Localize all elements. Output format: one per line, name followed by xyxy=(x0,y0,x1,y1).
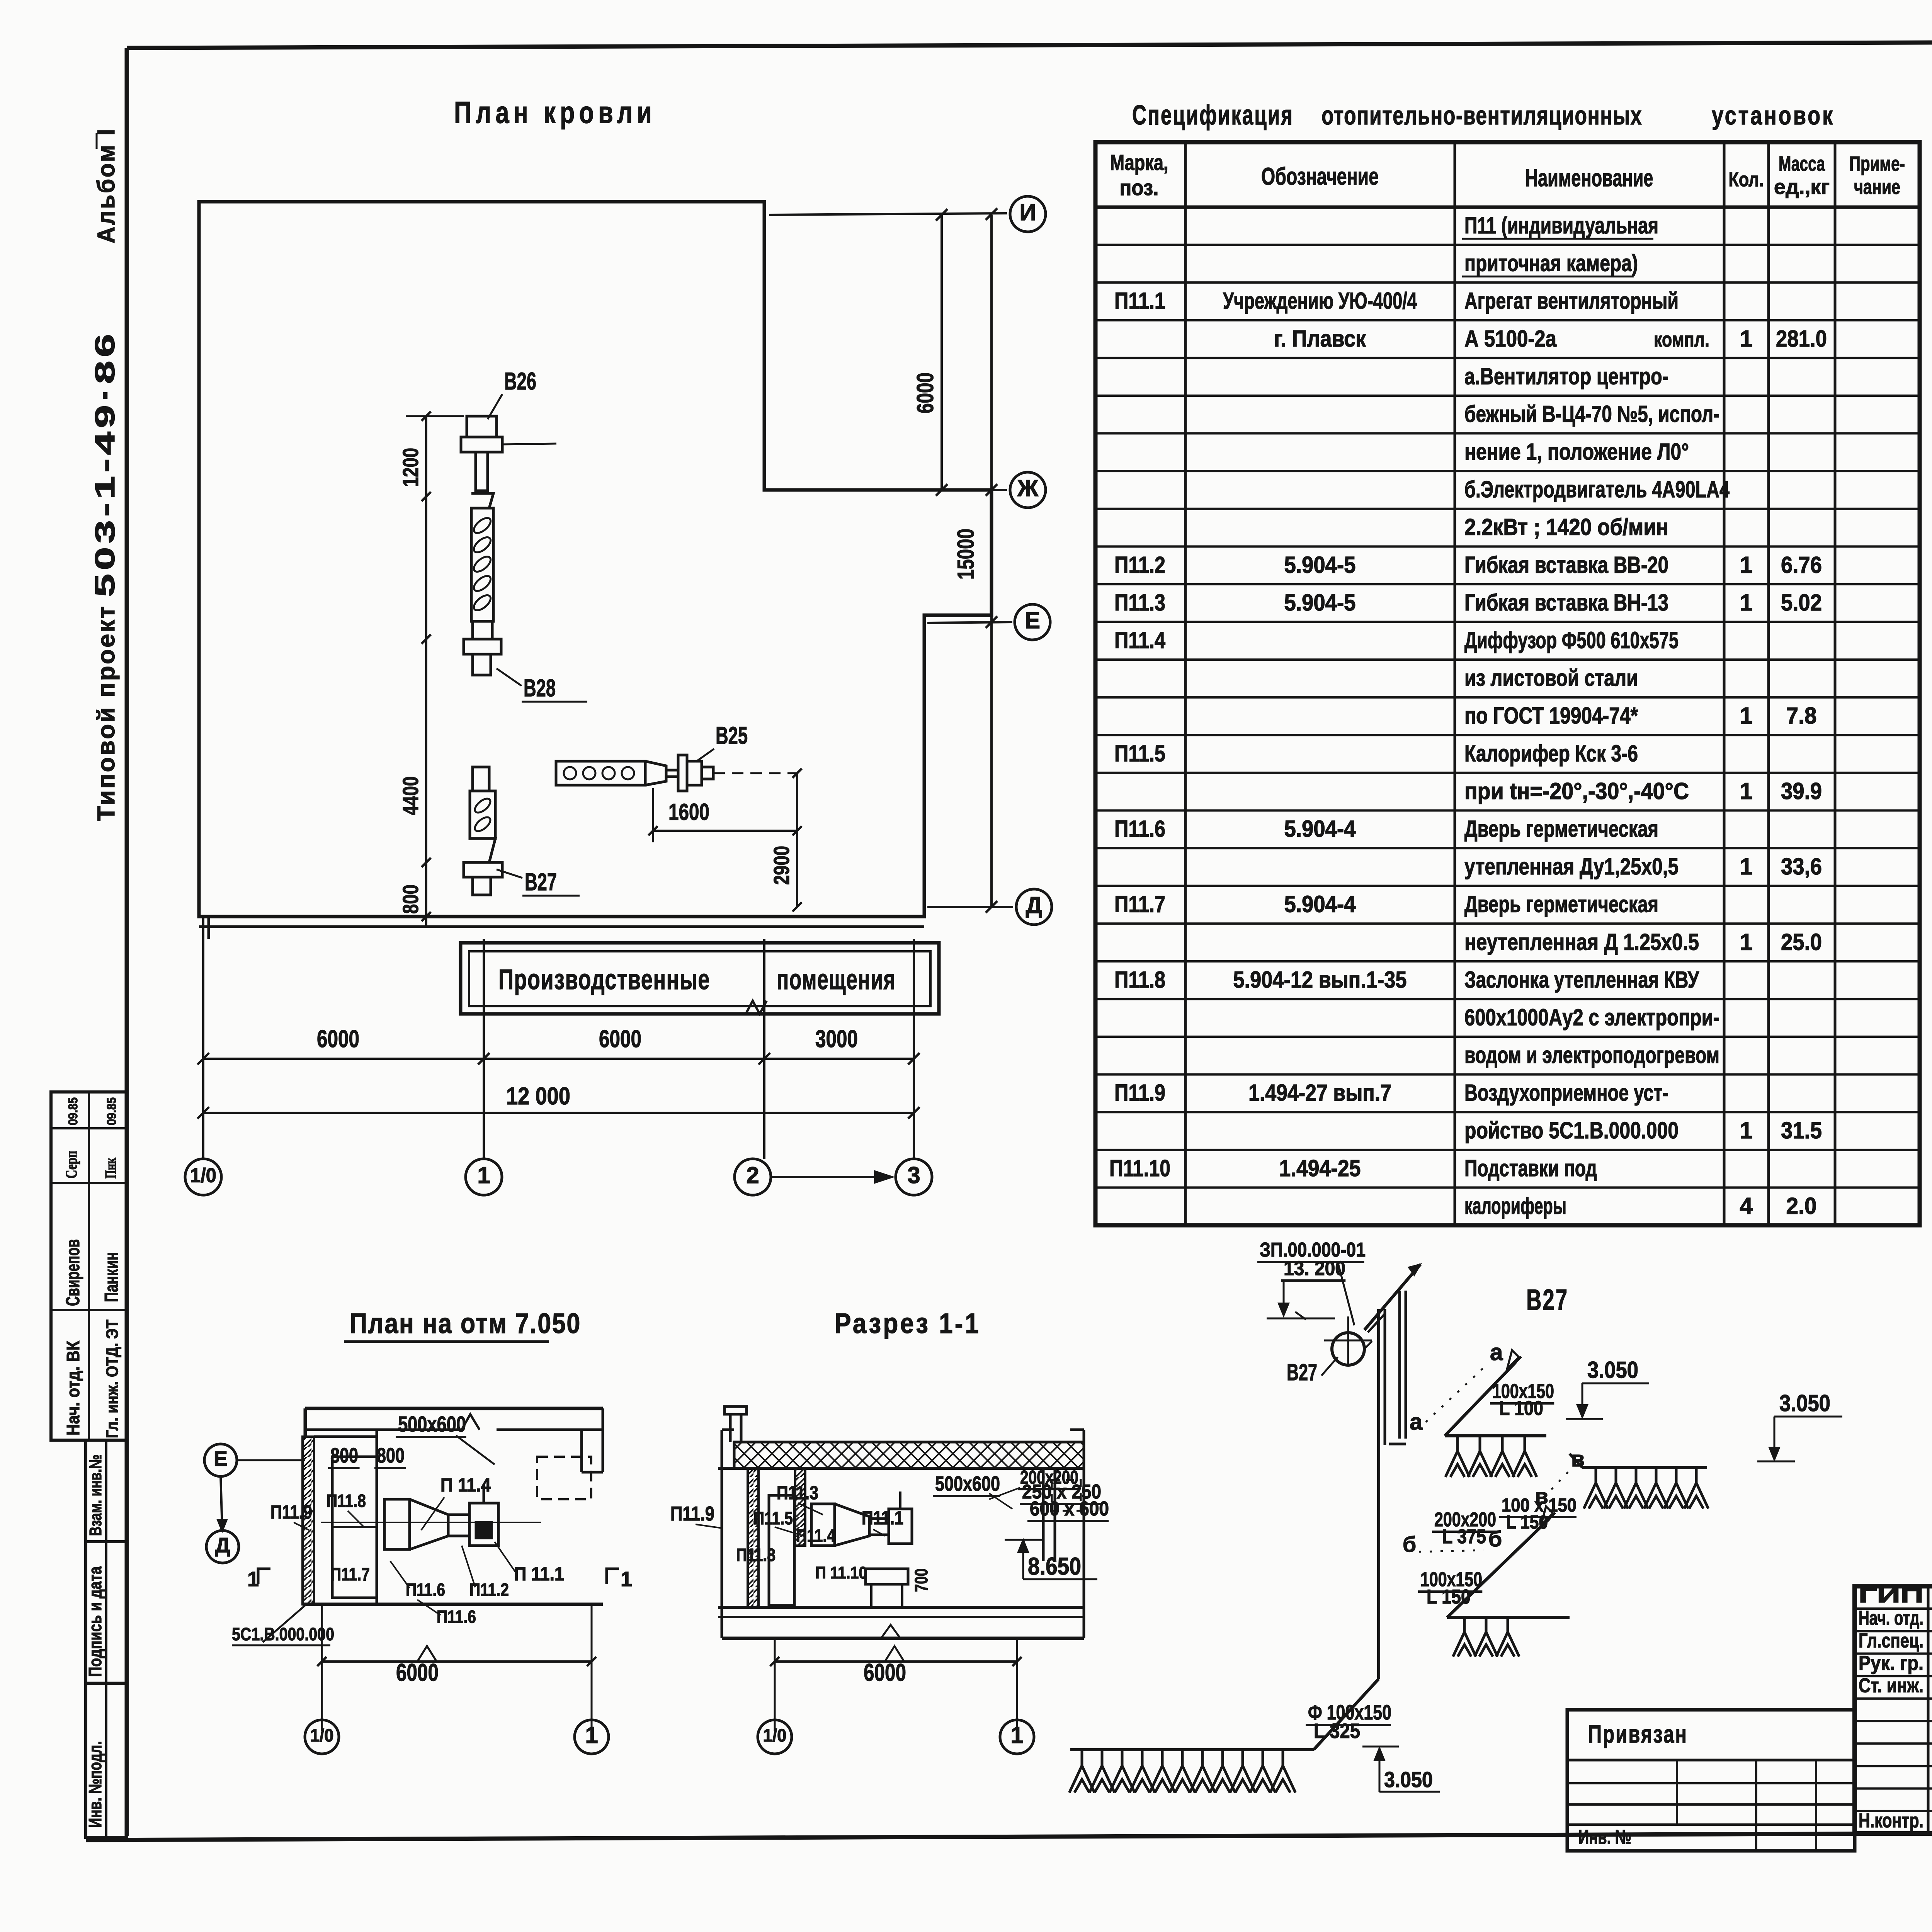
svg-text:Гибкая вставка ВН-13: Гибкая вставка ВН-13 xyxy=(1464,590,1668,616)
svg-text:П11.5: П11.5 xyxy=(1114,740,1165,766)
title block left columns xyxy=(1927,1586,1930,1833)
axis И xyxy=(769,213,1007,215)
svg-text:1: 1 xyxy=(1010,1722,1023,1748)
svg-text:Воздухоприемное уст-: Воздухоприемное уст- xyxy=(1464,1080,1668,1106)
axis circle 2 xyxy=(735,1159,771,1195)
margin strip: Инв. № подл. xyxy=(86,1683,127,1837)
svg-text:приточная камера): приточная камера) xyxy=(1464,250,1638,276)
svg-text:П11.6: П11.6 xyxy=(1114,816,1165,842)
svg-text:1/0: 1/0 xyxy=(763,1725,787,1745)
svg-text:Пнк: Пнк xyxy=(102,1158,119,1179)
axis circle 3 xyxy=(896,1159,932,1195)
svg-text:Разрез 1-1: Разрез 1-1 xyxy=(835,1308,981,1339)
centerline dashed xyxy=(713,772,797,774)
section equipment xyxy=(769,1495,794,1605)
plan 7.050 walls xyxy=(305,1407,603,1410)
svg-text:П11.4: П11.4 xyxy=(1114,628,1166,653)
svg-text:бежный В-Ц4-70 №5, испол-: бежный В-Ц4-70 №5, испол- xyxy=(1464,401,1719,427)
svg-text:33,6: 33,6 xyxy=(1781,854,1822,879)
svg-text:Подпись и дата: Подпись и дата xyxy=(85,1566,105,1677)
svg-text:13. 200: 13. 200 xyxy=(1284,1257,1345,1280)
axis Ж xyxy=(769,489,1007,491)
bottom dim chain xyxy=(202,917,204,1159)
svg-text:В25: В25 xyxy=(716,722,748,749)
svg-text:г. Плавск: г. Плавск xyxy=(1274,326,1366,352)
svg-text:2: 2 xyxy=(746,1162,759,1188)
svg-text:Гл. инж. ОТД. ЭТ: Гл. инж. ОТД. ЭТ xyxy=(103,1320,122,1438)
svg-text:5.904-12 вып.1-35: 5.904-12 вып.1-35 xyxy=(1233,967,1407,993)
svg-text:при tн=-20°,-30°,-40°С: при tн=-20°,-30°,-40°С xyxy=(1464,778,1689,804)
svg-text:4: 4 xyxy=(1740,1193,1753,1219)
margin strip: Подпись и дата xyxy=(86,1542,127,1683)
svg-text:39.9: 39.9 xyxy=(1781,778,1822,804)
svg-text:а.Вентилятор центро-: а.Вентилятор центро- xyxy=(1464,363,1668,389)
svg-text:1: 1 xyxy=(1740,929,1752,955)
svg-text:1: 1 xyxy=(1740,326,1752,352)
svg-text:Гибкая вставка ВВ-20: Гибкая вставка ВВ-20 xyxy=(1464,552,1668,578)
svg-text:П11.2: П11.2 xyxy=(469,1580,509,1600)
svg-text:П11.1: П11.1 xyxy=(862,1508,903,1529)
svg-text:3.050: 3.050 xyxy=(1779,1390,1830,1416)
section bottom dim xyxy=(774,1638,776,1731)
svg-text:700: 700 xyxy=(911,1568,931,1592)
svg-text:503-1-49·86: 503-1-49·86 xyxy=(90,330,121,597)
svg-text:Гл.спец.: Гл.спец. xyxy=(1859,1629,1923,1652)
svg-text:1: 1 xyxy=(1740,552,1752,578)
svg-text:L 150: L 150 xyxy=(1506,1512,1548,1533)
svg-text:П11.9: П11.9 xyxy=(670,1503,714,1525)
svg-text:Д: Д xyxy=(215,1534,230,1557)
svg-text:А 5100-2а: А 5100-2а xyxy=(1464,326,1557,352)
parapet double line xyxy=(199,925,924,928)
svg-text:П11.10: П11.10 xyxy=(1109,1155,1170,1181)
svg-text:Д: Д xyxy=(1026,892,1043,918)
svg-text:Калорифер Кск 3-6: Калорифер Кск 3-6 xyxy=(1464,740,1638,766)
svg-text:600 х 600: 600 х 600 xyxy=(1030,1498,1109,1520)
svg-text:5С1.В.000.000: 5С1.В.000.000 xyxy=(232,1624,334,1644)
svg-text:1: 1 xyxy=(1740,590,1752,616)
svg-text:П11.7: П11.7 xyxy=(1114,891,1165,917)
svg-text:1200: 1200 xyxy=(398,448,423,487)
svg-text:600х1000Ау2 с электропри-: 600х1000Ау2 с электропри- xyxy=(1464,1004,1719,1030)
axis Д xyxy=(927,906,1013,908)
svg-text:по ГОСТ 19904-74*: по ГОСТ 19904-74* xyxy=(1464,703,1638,729)
axis circle 1/0 xyxy=(185,1159,221,1195)
svg-text:1/0: 1/0 xyxy=(310,1725,334,1745)
svg-text:Нач. отд. ВК: Нач. отд. ВК xyxy=(63,1340,83,1435)
svg-text:4400: 4400 xyxy=(398,776,423,815)
svg-text:В27: В27 xyxy=(1526,1284,1568,1316)
svg-text:6000: 6000 xyxy=(599,1026,641,1053)
svg-text:1: 1 xyxy=(477,1162,490,1188)
svg-text:Дверь герметическая: Дверь герметическая xyxy=(1464,816,1658,842)
svg-text:П 11.10: П 11.10 xyxy=(815,1563,867,1582)
svg-text:1/0: 1/0 xyxy=(190,1165,216,1187)
svg-text:2900: 2900 xyxy=(769,846,794,885)
svg-text:1: 1 xyxy=(1740,778,1752,804)
svg-text:3.050: 3.050 xyxy=(1384,1767,1433,1792)
svg-text:1.494-25: 1.494-25 xyxy=(1279,1155,1361,1181)
svg-text:установок: установок xyxy=(1712,101,1835,130)
svg-text:Рук. гр.: Рук. гр. xyxy=(1859,1652,1923,1675)
vent unit B26 xyxy=(467,416,497,437)
svg-text:калориферы: калориферы xyxy=(1464,1193,1566,1219)
svg-text:из листовой стали: из листовой стали xyxy=(1464,665,1638,691)
svg-text:Заслонка утепленная КВУ: Заслонка утепленная КВУ xyxy=(1464,967,1699,993)
svg-text:ройство 5С1.В.000.000: ройство 5С1.В.000.000 xyxy=(1464,1117,1679,1143)
svg-text:1: 1 xyxy=(585,1722,598,1748)
svg-text:Взам. инв.№: Взам. инв.№ xyxy=(86,1454,105,1536)
svg-text:Серп: Серп xyxy=(62,1151,80,1179)
margin strip: Взам. инв. № xyxy=(86,1440,127,1542)
svg-text:6000: 6000 xyxy=(864,1659,906,1686)
dim 4400 xyxy=(425,497,427,862)
margin stamp table xyxy=(51,1092,127,1440)
svg-text:500х600: 500х600 xyxy=(935,1472,1000,1495)
svg-text:25.0: 25.0 xyxy=(1781,929,1822,955)
svg-text:8.650: 8.650 xyxy=(1028,1553,1081,1580)
svg-text:5.904-4: 5.904-4 xyxy=(1284,816,1356,842)
svg-text:б.Электродвигатель 4А90LА4: б.Электродвигатель 4А90LА4 xyxy=(1464,476,1730,502)
svg-text:помещения: помещения xyxy=(777,964,896,995)
svg-text:L 325: L 325 xyxy=(1314,1719,1360,1743)
svg-text:Дверь герметическая: Дверь герметическая xyxy=(1464,891,1658,917)
svg-text:5.904-4: 5.904-4 xyxy=(1284,891,1356,917)
svg-text:И: И xyxy=(1019,199,1036,225)
svg-text:П11.3: П11.3 xyxy=(1114,590,1165,616)
svg-text:L 150: L 150 xyxy=(1427,1586,1471,1608)
svg-text:Подставки под: Подставки под xyxy=(1464,1155,1597,1181)
section roof xyxy=(724,1406,747,1414)
svg-text:500х600: 500х600 xyxy=(398,1412,466,1437)
svg-text:П11.8: П11.8 xyxy=(736,1545,776,1565)
svg-text:1600: 1600 xyxy=(668,799,709,825)
svg-text:5.02: 5.02 xyxy=(1781,590,1822,616)
svg-text:1: 1 xyxy=(621,1568,632,1591)
axis Е xyxy=(927,622,1012,623)
svg-text:Наименование: Наименование xyxy=(1526,165,1653,192)
vent unit B27 (plan) xyxy=(473,767,489,791)
svg-text:П11.8: П11.8 xyxy=(1114,967,1165,993)
svg-text:П11.1: П11.1 xyxy=(1114,288,1165,314)
arrow 2->3 xyxy=(772,1176,893,1178)
svg-text:б: б xyxy=(1403,1532,1416,1557)
svg-text:П11.3: П11.3 xyxy=(777,1483,818,1503)
dim 800 xyxy=(425,862,427,927)
section marks 1-1 xyxy=(258,1569,270,1584)
svg-text:утепленная Ду1,25х0,5: утепленная Ду1,25х0,5 xyxy=(1464,854,1679,879)
svg-text:ГИП: ГИП xyxy=(1859,1585,1923,1607)
svg-text:800: 800 xyxy=(377,1444,405,1467)
axis circle 1 xyxy=(466,1159,502,1195)
B27 bottom run xyxy=(1314,1679,1379,1750)
svg-text:800: 800 xyxy=(398,884,423,914)
svg-text:В28: В28 xyxy=(524,675,556,702)
privyazan table xyxy=(1567,1710,1855,1851)
svg-text:1: 1 xyxy=(1740,1117,1752,1143)
svg-text:нение 1, положение Л0°: нение 1, положение Л0° xyxy=(1464,439,1689,465)
section left wall xyxy=(748,1468,759,1607)
svg-text:Инв. №подл.: Инв. №подл. xyxy=(85,1741,105,1828)
svg-text:Нач. отд.: Нач. отд. xyxy=(1859,1607,1923,1629)
svg-text:2.0: 2.0 xyxy=(1786,1193,1817,1219)
svg-text:Ж: Ж xyxy=(1017,475,1039,501)
svg-text:П11.5: П11.5 xyxy=(753,1508,793,1528)
dim 15000 xyxy=(990,215,993,907)
svg-text:а: а xyxy=(1410,1409,1423,1435)
svg-text:12 000: 12 000 xyxy=(506,1083,570,1110)
svg-text:П 11.1: П 11.1 xyxy=(514,1564,564,1585)
svg-text:09.85: 09.85 xyxy=(66,1097,80,1125)
svg-text:П11.2: П11.2 xyxy=(1114,552,1165,578)
svg-text:компл.: компл. xyxy=(1654,328,1709,351)
svg-text:800: 800 xyxy=(330,1444,358,1467)
svg-text:П11.6: П11.6 xyxy=(406,1580,445,1600)
svg-text:09.85: 09.85 xyxy=(104,1097,119,1125)
svg-text:П 11.4: П 11.4 xyxy=(440,1475,491,1496)
svg-text:П11.8: П11.8 xyxy=(327,1491,366,1511)
svg-text:Масса: Масса xyxy=(1779,152,1825,175)
svg-text:Марка,: Марка, xyxy=(1110,150,1168,175)
svg-text:поз.: поз. xyxy=(1120,175,1159,200)
svg-text:Ст. инж.: Ст. инж. xyxy=(1859,1675,1923,1697)
svg-text:Инв. №: Инв. № xyxy=(1578,1826,1631,1849)
svg-text:Учреждению УЮ-400/4: Учреждению УЮ-400/4 xyxy=(1223,288,1417,314)
svg-text:П11 (индивидуальная: П11 (индивидуальная xyxy=(1464,213,1658,238)
plan 7.050 equipment xyxy=(332,1457,377,1598)
B27 riser xyxy=(1377,1309,1380,1679)
svg-text:3000: 3000 xyxy=(815,1026,858,1053)
svg-text:3: 3 xyxy=(907,1162,920,1188)
svg-text:План на отм 7.050: План на отм 7.050 xyxy=(350,1308,581,1339)
svg-text:7.8: 7.8 xyxy=(1786,703,1817,729)
svg-text:6000: 6000 xyxy=(912,372,938,413)
svg-text:6.76: 6.76 xyxy=(1781,552,1822,578)
svg-text:П11.7: П11.7 xyxy=(330,1564,370,1584)
dim 2900 xyxy=(796,773,798,907)
svg-text:Обозначение: Обозначение xyxy=(1261,163,1379,190)
svg-text:Свирепов: Свирепов xyxy=(63,1239,83,1306)
svg-text:чание: чание xyxy=(1854,175,1900,199)
frame border xyxy=(127,40,1932,48)
svg-text:П11.6: П11.6 xyxy=(437,1607,476,1627)
svg-text:неутепленная Д 1.25х0.5: неутепленная Д 1.25х0.5 xyxy=(1464,929,1699,955)
svg-text:1: 1 xyxy=(247,1568,259,1591)
B27 fan xyxy=(1332,1333,1364,1365)
dim 1200 xyxy=(425,416,427,497)
svg-text:В27: В27 xyxy=(1287,1359,1317,1385)
svg-text:15000: 15000 xyxy=(953,529,979,580)
svg-text:Производственные: Производственные xyxy=(498,964,710,995)
svg-text:281.0: 281.0 xyxy=(1776,326,1827,352)
svg-text:Привязан: Привязан xyxy=(1588,1720,1688,1748)
svg-text:6000: 6000 xyxy=(396,1659,439,1686)
svg-text:1: 1 xyxy=(1740,854,1752,879)
svg-text:5.904-5: 5.904-5 xyxy=(1284,590,1356,616)
B27 top diagonal xyxy=(1364,1264,1420,1330)
title block xyxy=(1855,1586,1932,1833)
building outline xyxy=(199,202,992,917)
svg-text:отопительно-вентиляционных: отопительно-вентиляционных xyxy=(1321,101,1642,130)
svg-text:П11.9: П11.9 xyxy=(270,1502,312,1523)
svg-text:водом и электроподогревом: водом и электроподогревом xyxy=(1464,1042,1719,1068)
svg-text:В26: В26 xyxy=(504,368,536,395)
svg-text:Е: Е xyxy=(214,1447,228,1470)
svg-text:2.2кВт ; 1420 об/мин: 2.2кВт ; 1420 об/мин xyxy=(1464,514,1668,540)
spec table grid xyxy=(1095,142,1920,1225)
svg-text:П11.9: П11.9 xyxy=(1114,1080,1165,1106)
svg-text:Е: Е xyxy=(1025,607,1040,633)
svg-text:5.904-5: 5.904-5 xyxy=(1284,552,1356,578)
svg-text:В27: В27 xyxy=(525,869,557,896)
svg-text:Типовой проект: Типовой проект xyxy=(93,605,120,821)
svg-text:L 100: L 100 xyxy=(1499,1397,1543,1420)
plan 7.050 bottom dim xyxy=(321,1604,323,1731)
plan 7.050 axes E and Д xyxy=(204,1444,237,1476)
svg-text:ед.,кг: ед.,кг xyxy=(1774,175,1830,199)
svg-text:П11.4: П11.4 xyxy=(796,1526,835,1546)
svg-text:1.494-27 вып.7: 1.494-27 вып.7 xyxy=(1248,1080,1391,1106)
section right duct xyxy=(1042,1468,1045,1561)
svg-text:Панкин: Панкин xyxy=(101,1252,122,1302)
vent unit B25 (plan) xyxy=(556,761,645,785)
svg-text:Кол.: Кол. xyxy=(1729,168,1764,191)
svg-text:1: 1 xyxy=(1740,703,1752,729)
svg-text:Диффузор Ф500 610х575: Диффузор Ф500 610х575 xyxy=(1464,628,1679,653)
svg-text:План кровли: План кровли xyxy=(454,95,656,129)
box Производственные помещения xyxy=(461,943,939,1014)
section floor xyxy=(718,1606,1084,1609)
svg-text:Н.контр.: Н.контр. xyxy=(1859,1810,1923,1832)
svg-text:3.050: 3.050 xyxy=(1587,1357,1638,1383)
svg-text:6000: 6000 xyxy=(317,1026,359,1053)
dim 6000 (И-Ж) xyxy=(940,215,943,490)
svg-text:Спецификация: Спецификация xyxy=(1132,100,1294,131)
svg-text:31.5: 31.5 xyxy=(1781,1117,1822,1143)
svg-text:L 375: L 375 xyxy=(1442,1526,1486,1548)
dim 1600 xyxy=(653,830,797,832)
svg-text:Агрегат вентиляторный: Агрегат вентиляторный xyxy=(1464,288,1679,314)
svg-text:а: а xyxy=(1490,1339,1503,1365)
svg-text:Приме-: Приме- xyxy=(1849,152,1905,175)
